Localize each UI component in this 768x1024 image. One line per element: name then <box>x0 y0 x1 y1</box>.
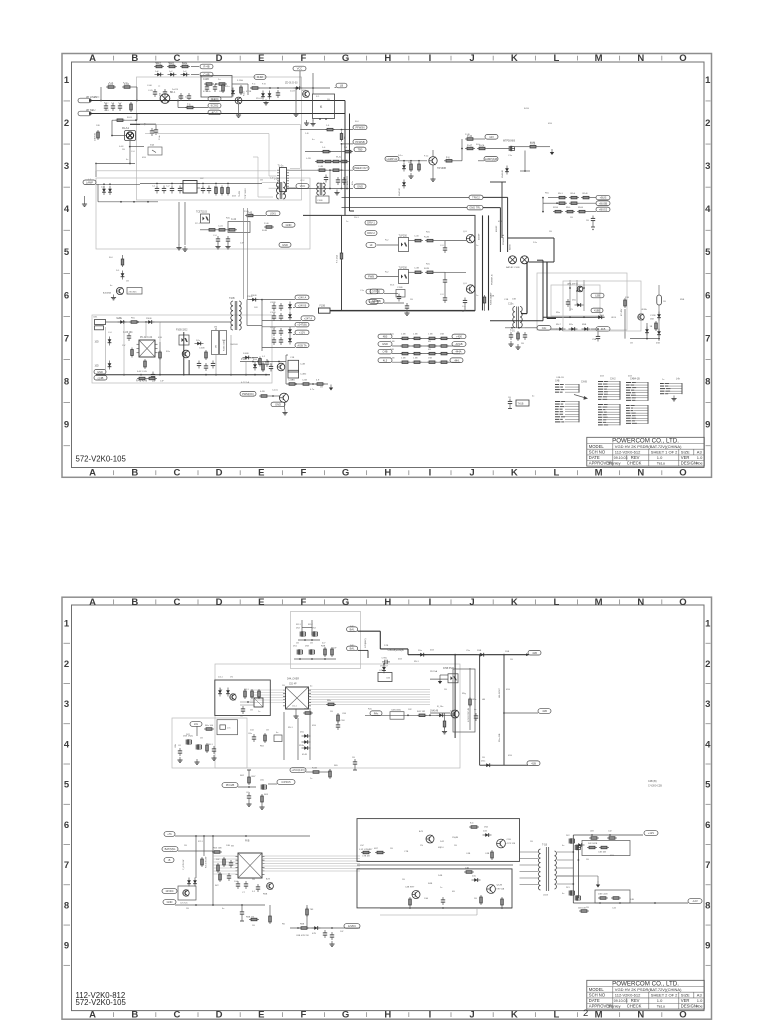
svg-text:UF5 4TF B: UF5 4TF B <box>567 284 578 286</box>
resistor R-44 <box>200 229 217 232</box>
connector CN-3 block a <box>626 382 649 401</box>
svg-text:41B6F: 41B6F <box>496 225 498 232</box>
wire bus sense rail <box>542 197 544 213</box>
p2 resistor R6J <box>260 733 266 748</box>
net label D-02b <box>254 75 266 80</box>
p2 mosfet Q2-1 <box>296 628 306 637</box>
p2 capacitor C7w <box>240 905 244 921</box>
p2 inductor L7B <box>361 851 385 854</box>
net label PWB <box>365 274 377 279</box>
svg-text:TH1B: TH1B <box>518 404 524 406</box>
wire aux mid verticals <box>184 332 189 375</box>
svg-text:C1x: C1x <box>360 290 365 292</box>
resistor R-46 <box>218 226 237 232</box>
svg-text:25DB: 25DB <box>146 318 152 320</box>
svg-text:0WER OUT: 0WER OUT <box>354 166 368 170</box>
capacitor C15B <box>396 287 405 302</box>
p2 ic left bus <box>250 690 286 703</box>
svg-text:C4B: C4B <box>382 350 387 354</box>
p2 resistor R63c <box>269 905 272 924</box>
p2 mosfet Q2-4 <box>305 646 315 655</box>
svg-text:09.10.03: 09.10.03 <box>614 999 628 1003</box>
p2 label ic <box>287 679 299 686</box>
p2 rail right 2 <box>503 655 505 766</box>
svg-text:8: 8 <box>64 900 69 911</box>
capacitor C-31 <box>435 272 447 285</box>
svg-text:4B: 4B <box>452 891 455 893</box>
svg-text:VER: VER <box>681 998 690 1003</box>
p2 ic U7 inverter <box>231 841 265 879</box>
svg-text:BAL+: BAL+ <box>350 625 356 628</box>
svg-text:5: 5 <box>705 780 711 791</box>
ic U-02 <box>180 181 200 194</box>
svg-text:-B: -B <box>168 858 171 862</box>
svg-text:K: K <box>511 468 518 479</box>
diode D-17 <box>556 324 566 331</box>
p2 inverter sub box <box>178 886 196 905</box>
svg-text:444A: 444A <box>455 350 461 354</box>
svg-text:DESIGN: DESIGN <box>681 461 697 466</box>
svg-text:C(BC084): C(BC084) <box>391 709 401 711</box>
svg-text:C-2: C-2 <box>166 186 170 188</box>
p2 resistor R6L <box>329 769 332 779</box>
svg-text:1B: 1B <box>122 149 125 151</box>
svg-text:I: I <box>429 53 432 64</box>
svg-text:10D/561: 10D/561 <box>95 132 97 141</box>
mosfet Q-11 <box>487 140 516 152</box>
svg-text:12A: 12A <box>174 744 177 748</box>
svg-text:4L5: 4L5 <box>383 358 388 362</box>
net label LO <box>366 289 378 294</box>
svg-text:3.15A: 3.15A <box>237 79 243 82</box>
ground G5 <box>508 341 520 349</box>
svg-text:C5-1: C5-1 <box>292 706 298 708</box>
resistor R10B2 <box>517 331 520 341</box>
svg-text:47B: 47B <box>178 97 182 99</box>
wire AC line bus <box>90 100 345 102</box>
p2 resistor R2-1 <box>321 646 333 658</box>
resistor R-52 <box>137 359 148 373</box>
svg-text:C-30: C-30 <box>414 236 420 238</box>
wire pwm bottom <box>286 383 328 385</box>
wire fuse branch down <box>132 87 138 101</box>
wire node down <box>95 164 97 178</box>
wire bottom rail <box>330 310 475 312</box>
svg-text:LAMP: LAMP <box>86 180 93 184</box>
p2 label C6B <box>296 935 310 937</box>
diode D-08 <box>102 186 106 195</box>
wire gray route b <box>145 134 277 176</box>
capacitor C-48 <box>204 363 208 371</box>
diode D5F <box>657 312 661 338</box>
svg-text:1N4148: 1N4148 <box>502 170 504 178</box>
svg-text:D-1x: D-1x <box>398 155 404 157</box>
p2 net label BATMG <box>162 847 178 852</box>
svg-text:R8-1: R8-1 <box>244 689 250 691</box>
net label GND4 <box>271 402 285 407</box>
diode D-01 <box>155 73 164 77</box>
p2 diode D5B <box>477 650 487 657</box>
svg-text:TCET1103: TCET1103 <box>196 212 208 214</box>
resistor R-32 <box>424 237 435 242</box>
svg-text:SIZE: SIZE <box>681 450 690 455</box>
svg-text:H: H <box>384 597 391 608</box>
svg-text:1B: 1B <box>402 879 405 881</box>
svg-text:R-4B: R-4B <box>262 230 268 232</box>
svg-text:1.0B: 1.0B <box>401 334 406 336</box>
svg-text:B: B <box>131 1009 138 1020</box>
svg-text:1B: 1B <box>126 281 129 283</box>
svg-text:41B: 41B <box>506 689 510 691</box>
svg-text:M: M <box>595 597 603 608</box>
svg-text:2: 2 <box>583 1008 588 1019</box>
svg-text:444: 444 <box>454 358 459 362</box>
resistor R-58 <box>259 391 274 397</box>
resistor C-5B2 <box>301 380 311 386</box>
svg-text:Q-3: Q-3 <box>463 231 467 233</box>
svg-text:N: N <box>637 53 644 64</box>
svg-text:41B: 41B <box>302 90 306 92</box>
svg-text:1.0B: 1.0B <box>401 357 406 359</box>
resistor R5-L <box>565 207 575 213</box>
resistor R-42 <box>221 186 224 196</box>
svg-text:R5-L: R5-L <box>566 207 572 209</box>
p2 box BC084 <box>390 709 404 719</box>
svg-text:2K2: 2K2 <box>312 628 317 630</box>
svg-text:1B: 1B <box>330 711 333 713</box>
p2 capacitor C7y <box>236 881 248 889</box>
net label COM <box>366 300 378 305</box>
svg-text:D5x: D5x <box>300 732 305 734</box>
capacitor bank 47u <box>336 177 354 185</box>
net label +24T A <box>262 316 315 321</box>
svg-text:1B: 1B <box>570 217 573 219</box>
svg-text:41B: 41B <box>610 855 614 857</box>
svg-text:VGD HV 2K PSDR(BAT.72V)(CHINA): VGD HV 2K PSDR(BAT.72V)(CHINA) <box>615 444 682 449</box>
svg-text:R5x 41B: R5x 41B <box>499 733 501 742</box>
svg-text:L7x: L7x <box>227 728 231 730</box>
p2 transistor Q7-1 <box>183 890 189 896</box>
capacitor C21B <box>270 327 283 336</box>
ground G8 <box>282 402 287 415</box>
p2 column C84 <box>336 713 345 730</box>
svg-text:R5-1: R5-1 <box>414 661 420 663</box>
net label VCC1 <box>293 66 306 88</box>
svg-text:1-0: 1-0 <box>322 147 326 149</box>
fuse F10B <box>319 306 331 314</box>
svg-text:D5-1: D5-1 <box>354 217 360 219</box>
svg-text:SCH NO: SCH NO <box>589 993 606 998</box>
connector CN-10 <box>95 320 106 330</box>
p2 rails mid <box>284 708 310 760</box>
svg-text:1B: 1B <box>521 343 524 345</box>
svg-text:3: 3 <box>705 699 710 710</box>
svg-text:1uF: 1uF <box>160 381 164 383</box>
svg-text:47u: 47u <box>352 181 354 185</box>
svg-text:C_4/7B 1W: C_4/7B 1W <box>183 860 185 870</box>
p2 wire out top <box>573 834 643 836</box>
bridge rectifier BD-1 <box>160 92 176 103</box>
sense row 4b <box>427 358 463 364</box>
svg-text:R-4: R-4 <box>109 257 113 259</box>
svg-text:7: 7 <box>64 860 69 871</box>
net label BUSB <box>543 201 610 206</box>
svg-text:12VDC: 12VDC <box>165 889 173 893</box>
power rail POWER-B <box>489 215 494 310</box>
primary snubber box <box>212 331 219 355</box>
p2 diode D7x <box>382 663 386 673</box>
svg-text:R1x: R1x <box>166 351 171 353</box>
svg-text:N: N <box>637 1009 644 1020</box>
relay box K-1 <box>310 94 334 126</box>
svg-text:L5B: L5B <box>595 294 600 298</box>
svg-text:2K2: 2K2 <box>296 628 301 630</box>
mosfet Q-31 <box>443 272 475 303</box>
svg-text:GND: GND <box>275 403 281 407</box>
svg-text:D44_OVER: D44_OVER <box>287 679 299 681</box>
svg-text:E: E <box>258 1009 264 1020</box>
svg-text:G: G <box>342 468 349 479</box>
svg-text:MODEL: MODEL <box>589 987 605 992</box>
svg-text:M: M <box>595 53 603 64</box>
diode D-04 <box>268 91 272 100</box>
svg-text:SIZE: SIZE <box>681 993 690 998</box>
connector CN-4 block <box>660 383 683 401</box>
svg-text:R63 10B: R63 10B <box>213 848 222 850</box>
sheet 2 title block <box>587 980 705 1009</box>
svg-text:C15B: C15B <box>397 287 403 289</box>
capacitor C-4y <box>317 175 328 186</box>
vertical rail labels <box>496 225 505 245</box>
svg-text:C-3: C-3 <box>440 245 444 247</box>
svg-text:1.0B: 1.0B <box>390 341 395 343</box>
wire pwm rail <box>286 355 288 384</box>
svg-text:O: O <box>679 468 686 479</box>
svg-text:C: C <box>173 597 180 608</box>
svg-text:L-01: L-01 <box>274 179 279 181</box>
svg-text:C-42: C-42 <box>231 219 237 221</box>
svg-text:HI: HI <box>370 243 373 247</box>
svg-text:R5y: R5y <box>462 693 467 695</box>
transistor Q-33 <box>506 256 529 269</box>
net label 9C93242 <box>208 103 221 108</box>
svg-text:R5-1: R5-1 <box>558 193 564 195</box>
diode D-10 <box>121 271 125 280</box>
svg-text:C4B: C4B <box>485 853 490 855</box>
svg-text:C7Bx: C7Bx <box>382 658 388 660</box>
svg-text:6: 6 <box>705 290 710 301</box>
zener ZD-11 <box>288 327 292 336</box>
wire gndtrl run <box>342 207 468 209</box>
svg-text:LAMP A2: LAMP A2 <box>387 157 398 161</box>
svg-text:D: D <box>216 1009 223 1020</box>
mosfet Q-30 <box>445 235 475 243</box>
svg-text:R1x: R1x <box>390 334 395 336</box>
svg-text:4x: 4x <box>474 709 477 711</box>
svg-text:Abe: Abe <box>696 462 703 466</box>
resistor F-6 <box>444 157 454 163</box>
p2 ic U8 <box>240 698 263 714</box>
section box aux supply <box>92 315 272 383</box>
wire T-02 feed pair <box>244 208 248 299</box>
svg-text:1B: 1B <box>200 738 203 740</box>
svg-text:D4x: D4x <box>472 876 477 878</box>
wire trig2 run <box>342 196 470 198</box>
resistor R-33 <box>408 271 423 274</box>
diode D-05 <box>231 88 235 97</box>
sheet 2 frame <box>62 597 712 1021</box>
svg-text:C-1: C-1 <box>111 103 115 105</box>
p2 fet pair top <box>566 835 581 850</box>
svg-text:H: H <box>384 468 391 479</box>
p2 net label 12VDC2 <box>344 924 360 929</box>
optocoupler PC-1 <box>196 212 210 224</box>
svg-text:2: 2 <box>64 659 69 670</box>
svg-text:C6B 47B 1W: C6B 47B 1W <box>296 935 310 937</box>
svg-text:R5-B: R5-B <box>583 193 589 195</box>
fuse F-5 <box>336 251 343 263</box>
svg-text:D: D <box>216 468 223 479</box>
svg-text:F: F <box>301 468 307 479</box>
p2 t1b label2 <box>543 895 548 897</box>
filter block FL1 <box>201 76 232 98</box>
svg-text:C84: C84 <box>342 713 347 715</box>
charger cluster top <box>567 280 585 311</box>
connector CN-B label <box>555 381 587 384</box>
p2 resistor R63 <box>259 794 264 809</box>
svg-text:C4x: C4x <box>542 326 547 330</box>
svg-text:4x: 4x <box>310 686 313 688</box>
svg-text:2K1: 2K1 <box>566 887 570 889</box>
resistor R-31 <box>408 239 423 242</box>
wire gray route a <box>140 124 300 168</box>
p2 mosfet Q62 <box>261 785 266 790</box>
net label GND B <box>369 299 404 304</box>
net label LB <box>335 83 348 88</box>
diode D-06 <box>294 86 303 90</box>
vertical row D-E <box>330 144 347 189</box>
svg-text:1N: 1N <box>230 677 233 679</box>
wire bridge bottom ext <box>330 309 342 311</box>
resistor R-53 <box>159 350 162 360</box>
svg-text:R-02: R-02 <box>168 63 174 65</box>
aux gray verticals <box>106 322 247 375</box>
p2 net label -B <box>164 858 174 863</box>
svg-text:1.0: 1.0 <box>657 455 663 460</box>
p2 t1b right pins <box>557 852 573 884</box>
ic box C-4B2 <box>288 370 307 378</box>
svg-text:1B: 1B <box>454 845 457 847</box>
svg-text:1B: 1B <box>474 898 477 900</box>
svg-text:7: 7 <box>64 333 69 344</box>
svg-text:(-)4B: (-)4B <box>98 376 104 380</box>
svg-text:C-05: C-05 <box>148 90 154 92</box>
resistor R-01 <box>127 102 133 119</box>
diode D10B2 <box>250 295 259 302</box>
svg-text:4x7: 4x7 <box>322 643 326 645</box>
svg-text:5: 5 <box>64 247 70 258</box>
svg-text:C-3: C-3 <box>440 294 444 296</box>
svg-text:R6: R6 <box>282 924 286 926</box>
section box control <box>96 178 310 249</box>
svg-text:1x2: 1x2 <box>169 71 173 73</box>
svg-text:T-1B: T-1B <box>542 844 547 847</box>
svg-text:F-02: F-02 <box>123 83 128 85</box>
svg-text:10B: 10B <box>226 845 230 847</box>
p2 ic U7 side comps <box>217 857 234 873</box>
svg-text:1B: 1B <box>186 908 189 910</box>
svg-text:10B: 10B <box>250 358 254 360</box>
svg-text:C5J 4P: C5J 4P <box>289 684 297 686</box>
svg-text:4173 12B: 4173 12B <box>507 843 516 845</box>
svg-text:C-V2K0-C2B: C-V2K0-C2B <box>648 785 662 788</box>
svg-text:VCC: VCC <box>297 67 303 71</box>
diode D-09 <box>108 186 112 195</box>
svg-text:R-6B: R-6B <box>312 768 318 770</box>
svg-text:A1648A: A1648A <box>103 292 111 295</box>
svg-text:LB: LB <box>340 84 343 88</box>
wire gray route d <box>253 157 273 197</box>
connector J1 I/P LINE <box>78 95 98 103</box>
svg-text:R4x: R4x <box>374 711 379 715</box>
net label 0WER OUT <box>353 166 369 171</box>
svg-text:F-4: F-4 <box>252 84 256 86</box>
svg-text:-12V: -12V <box>692 899 698 903</box>
svg-text:C12B: C12B <box>650 315 656 317</box>
svg-text:41B: 41B <box>532 651 537 655</box>
svg-text:C4B: C4B <box>466 853 471 855</box>
transistor Q-01 <box>235 97 242 104</box>
svg-text:DRV-1: DRV-1 <box>367 221 375 225</box>
capacitor C-49 <box>211 361 215 369</box>
svg-text:R5x: R5x <box>131 318 136 320</box>
net label TB0 <box>354 147 366 152</box>
svg-text:1x: 1x <box>440 887 443 889</box>
wire charger rail top <box>543 315 617 319</box>
svg-text:3: 3 <box>64 161 69 172</box>
svg-text:182: 182 <box>408 709 412 711</box>
svg-text:E-b: E-b <box>470 823 474 825</box>
ground G6 <box>82 196 87 206</box>
svg-text:I: I <box>429 597 432 608</box>
power rail POWER-A <box>479 215 483 310</box>
wire switched bus <box>130 123 156 125</box>
svg-text:D1x: D1x <box>533 242 538 244</box>
p2 transistor Q1B <box>497 839 516 848</box>
svg-text:VGD HV 2K PSDR(BAT.72V)(CHINA): VGD HV 2K PSDR(BAT.72V)(CHINA) <box>615 987 682 992</box>
p2 net label BAL+ <box>347 627 358 632</box>
svg-text:N: N <box>637 597 644 608</box>
svg-text:1B: 1B <box>650 326 653 328</box>
net label DRV-2 <box>365 231 377 236</box>
wire gray route e <box>262 182 277 188</box>
svg-text:C-5B: C-5B <box>302 380 308 382</box>
svg-text:R5-1: R5-1 <box>288 727 294 729</box>
ic IC-02 <box>137 337 158 357</box>
transistor Q-10 <box>429 157 447 170</box>
svg-text:K: K <box>511 53 518 64</box>
svg-text:C7B: C7B <box>404 851 409 853</box>
p2 resistor RC7 <box>215 872 231 887</box>
p2 net label PFC2B <box>222 783 256 788</box>
svg-text:C-06 104: C-06 104 <box>123 332 133 334</box>
varistor 10D/561 <box>95 130 100 141</box>
svg-text:R5B: R5B <box>582 324 587 326</box>
svg-text:R7-1: R7-1 <box>198 841 204 843</box>
svg-text:GND: GND <box>167 900 173 904</box>
resistor 5-4 <box>343 147 353 153</box>
svg-text:1B2: 1B2 <box>650 319 655 321</box>
